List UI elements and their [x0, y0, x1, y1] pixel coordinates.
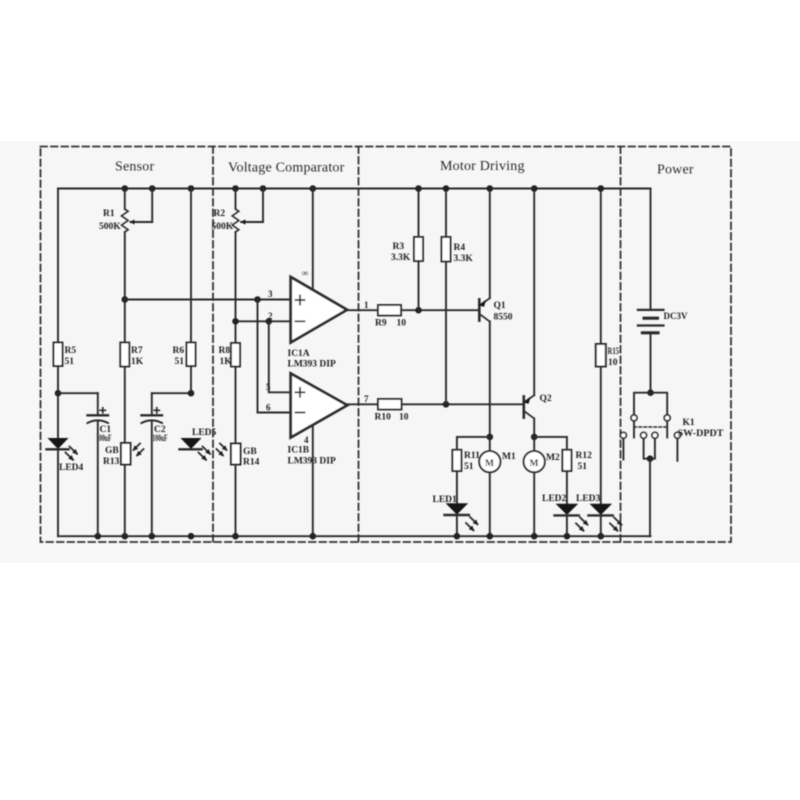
resistor R10	[378, 399, 402, 410]
wire: bottom ground rail	[58, 535, 651, 537]
svg-text:51: 51	[175, 357, 185, 367]
resistor R5	[54, 343, 63, 367]
resistor R9	[378, 305, 401, 316]
wire R9 to Q1	[401, 307, 479, 314]
motor M2	[524, 437, 545, 540]
wire R10 to Q2	[402, 401, 524, 408]
divider Motor Driving|Power	[620, 147, 622, 543]
wire: IC1A V+ pin8 to rail	[312, 189, 314, 290]
svg-text:3.3K: 3.3K	[391, 253, 411, 263]
op-amp IC1A	[291, 277, 347, 343]
wire R11 to LED1	[456, 471, 458, 503]
svg-text:R9: R9	[375, 319, 387, 329]
svg-text:LED4: LED4	[59, 463, 84, 473]
svg-text:10: 10	[399, 413, 409, 423]
wire: top supply rail	[58, 188, 651, 190]
wire R8 bottom to photoresistor R14	[235, 367, 237, 444]
resistor R15	[596, 185, 606, 504]
svg-text:GB: GB	[243, 447, 257, 457]
switch K1 SW-DPDT	[620, 389, 680, 536]
svg-text:2: 2	[268, 311, 273, 321]
faint scan band	[0, 141, 800, 563]
svg-text:1: 1	[364, 300, 369, 310]
svg-text:R12: R12	[576, 451, 593, 461]
svg-text:8550: 8550	[494, 313, 513, 323]
svg-text:K1: K1	[683, 418, 695, 428]
svg-text:LED2: LED2	[542, 494, 567, 504]
resistor R8	[231, 343, 240, 367]
resistor R4	[442, 185, 451, 404]
svg-text:Q1: Q1	[494, 301, 506, 311]
svg-text:51: 51	[65, 357, 75, 367]
svg-text:R1: R1	[103, 209, 115, 219]
svg-text:1K: 1K	[131, 357, 144, 367]
wire: node to IC1B pin6	[258, 300, 291, 413]
wire R13 to bottom rail	[124, 465, 126, 537]
motor M1	[479, 437, 500, 540]
LED LED5	[180, 438, 211, 460]
svg-text:R13: R13	[103, 457, 120, 467]
svg-text:500K: 500K	[212, 222, 234, 232]
svg-text:R10: R10	[375, 413, 392, 423]
wire R7 bottom to photoresistor R13	[124, 367, 126, 444]
svg-text:R11: R11	[464, 451, 480, 461]
wire: IC1B output to Q2 base	[346, 403, 378, 405]
svg-text:R6: R6	[173, 346, 185, 356]
svg-text:R14: R14	[243, 458, 260, 468]
svg-text:M1: M1	[502, 452, 516, 462]
svg-text:1K: 1K	[220, 357, 233, 367]
wire: IC1A output to Q1 base	[347, 309, 378, 311]
svg-text:DC3V: DC3V	[664, 312, 688, 322]
svg-text:IC1A: IC1A	[288, 349, 310, 359]
svg-text:R7: R7	[131, 346, 143, 356]
svg-text:SW-DPDT: SW-DPDT	[678, 429, 725, 439]
outer dashed border	[41, 147, 732, 543]
svg-text:LM393 DIP: LM393 DIP	[288, 457, 336, 467]
svg-text:3: 3	[268, 289, 273, 299]
svg-text:IC1B: IC1B	[288, 446, 310, 456]
node: rail junction dots	[122, 185, 317, 192]
svg-text:M2: M2	[546, 453, 560, 463]
svg-text:500K: 500K	[99, 222, 121, 232]
wire: IC1A pin2 input	[232, 318, 291, 325]
resistor R12	[562, 450, 571, 471]
svg-text:Sensor: Sensor	[115, 160, 154, 175]
photoresistor GB R14	[217, 444, 241, 465]
svg-text:LED3: LED3	[576, 494, 601, 504]
resistor R7	[120, 343, 129, 367]
transistor Q2	[523, 185, 537, 437]
svg-text:M: M	[530, 459, 539, 469]
resistor R6	[187, 189, 196, 394]
svg-text:R4: R4	[454, 243, 466, 253]
LED LED3	[588, 504, 621, 540]
node: Q2 collector node	[531, 434, 567, 450]
svg-text:51: 51	[464, 462, 474, 472]
svg-text:7: 7	[364, 394, 369, 404]
wire: IC1A pin3 input	[122, 296, 291, 303]
wire: battery to switch	[650, 333, 652, 393]
capacitor C1	[88, 393, 109, 536]
svg-text:Motor Driving: Motor Driving	[440, 159, 525, 174]
photoresistor GB R13	[121, 443, 144, 465]
svg-text:R5: R5	[65, 346, 77, 356]
svg-text:10: 10	[608, 358, 618, 368]
svg-text:LM393 DIP: LM393 DIP	[288, 360, 336, 370]
potentiometer R2	[232, 189, 263, 344]
node: junction under R5	[55, 390, 98, 397]
wire: left vertical (R5/LED4 branch)	[57, 189, 59, 537]
svg-text:3.3K: 3.3K	[454, 254, 474, 264]
svg-text:Voltage Comparator: Voltage Comparator	[228, 161, 345, 176]
node: bottom rail junction dots	[95, 533, 195, 540]
LED LED2	[555, 504, 588, 540]
resistor R11	[452, 450, 461, 471]
transistor Q1	[479, 185, 494, 437]
svg-text:5: 5	[266, 382, 271, 392]
svg-text:100uF: 100uF	[153, 434, 168, 444]
battery DC3V	[638, 310, 664, 333]
wire: IC1B GND pin4 to bottom rail	[232, 425, 316, 540]
capacitor C2	[142, 390, 195, 536]
svg-text:R2: R2	[214, 209, 226, 219]
svg-text:M: M	[485, 459, 494, 469]
svg-text:Q2: Q2	[540, 394, 552, 404]
wire R14 to bottom rail	[235, 465, 237, 537]
svg-text:Power: Power	[657, 163, 694, 178]
svg-text:∞: ∞	[302, 268, 308, 278]
svg-text:100uF: 100uF	[97, 434, 112, 444]
wire: node to IC1B pin5	[269, 321, 291, 392]
svg-text:R3: R3	[393, 242, 405, 252]
node: Q1 collector node	[457, 434, 493, 450]
svg-text:10: 10	[397, 319, 407, 329]
svg-text:6: 6	[266, 403, 271, 413]
LED LED4	[47, 438, 78, 460]
divider Sensor|Voltage Comparator	[212, 147, 214, 543]
resistor R3	[414, 185, 423, 310]
svg-text:GB: GB	[105, 446, 119, 456]
op-amp IC1B	[291, 374, 348, 438]
wire R12 to LED2	[566, 471, 568, 504]
svg-text:4: 4	[304, 435, 309, 445]
svg-text:51: 51	[578, 462, 588, 472]
divider Voltage Comparator|Motor Driving	[358, 147, 360, 543]
potentiometer R1	[122, 189, 153, 343]
svg-text:R8: R8	[219, 346, 231, 356]
LED LED1	[445, 503, 478, 539]
wire: rail to battery	[650, 189, 652, 310]
svg-text:LED1: LED1	[433, 495, 458, 505]
svg-text:LED5: LED5	[192, 428, 217, 438]
svg-text:R15: R15	[608, 347, 620, 357]
